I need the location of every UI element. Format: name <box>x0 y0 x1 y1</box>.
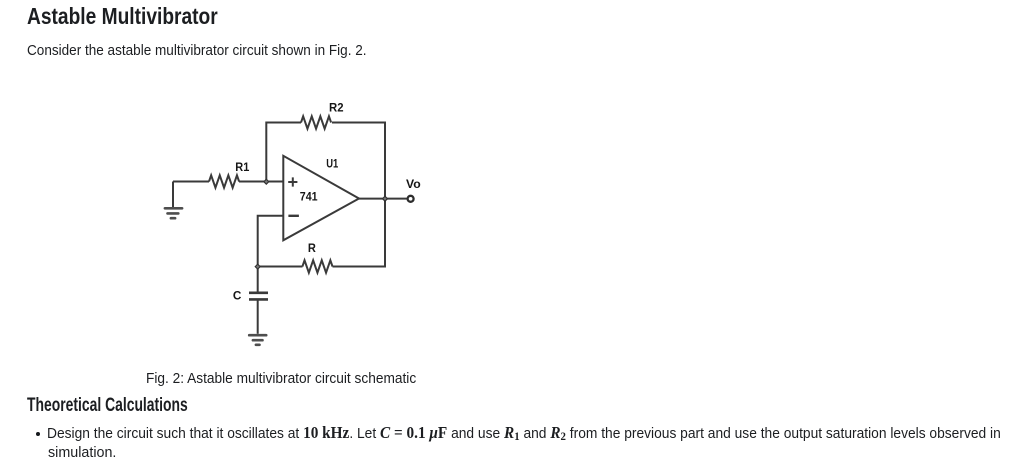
svg-text:Vo: Vo <box>406 177 421 191</box>
svg-text:741: 741 <box>300 190 318 204</box>
svg-text:U1: U1 <box>326 156 338 170</box>
svg-text:R1: R1 <box>235 160 249 174</box>
svg-text:C: C <box>233 288 242 302</box>
svg-text:R: R <box>308 241 316 255</box>
svg-text:R2: R2 <box>329 101 344 115</box>
